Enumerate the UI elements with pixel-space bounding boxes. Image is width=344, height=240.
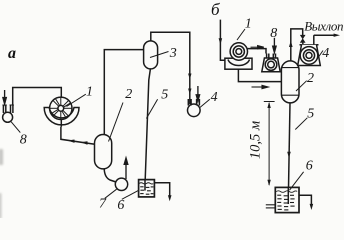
exhaust line with arrow (b) xyxy=(314,34,335,36)
tank 6 (b) outlet with arrow xyxy=(299,195,311,205)
leader and label 1 (b) xyxy=(237,17,252,40)
pipe 5 (a) long barometric line xyxy=(145,69,150,180)
svg-text:5: 5 xyxy=(307,107,314,122)
svg-text:1: 1 xyxy=(86,85,93,100)
inlet arrow into blower 8 with label 8 (b) xyxy=(273,38,276,53)
pipe 8 to pump 1 xyxy=(13,88,62,105)
label b (diagram b) xyxy=(211,0,220,19)
tank 6 (a) xyxy=(139,180,155,197)
leader and label 8 (a) xyxy=(11,122,27,148)
dimension 10.5 m xyxy=(264,102,275,186)
svg-text:2: 2 xyxy=(307,71,314,86)
svg-text:а: а xyxy=(8,45,16,62)
pipe pump1 to vessel 2 xyxy=(61,120,95,145)
pipe vessel2 bottom to pump 7 xyxy=(104,169,116,182)
tank 6 (a) outlet with arrow xyxy=(154,183,169,197)
leader and label 5 (a) xyxy=(146,88,168,119)
svg-text:10,5 м: 10,5 м xyxy=(247,121,263,159)
pipe vessel3 to pump 4 xyxy=(151,32,190,104)
svg-text:6: 6 xyxy=(306,159,313,174)
blower 8 (b) xyxy=(262,54,280,72)
leader and label 7 xyxy=(99,189,117,211)
pump 4 (a) xyxy=(188,99,201,117)
inlet arrow right tube of 4 xyxy=(196,86,199,101)
svg-text:1: 1 xyxy=(245,17,252,32)
flow arrows on pipe xyxy=(68,140,88,145)
barometric pipe 5 (b) with arrow xyxy=(288,103,290,200)
vacuum pump 1 (wheel) xyxy=(44,97,79,125)
leader and label 6 (a) xyxy=(117,190,138,213)
pipe vessel2 top to valve with up arrow (b) xyxy=(291,29,303,61)
leader and label 3 xyxy=(150,46,177,61)
label a (diagram a) xyxy=(8,45,16,62)
pump 7 outlet arrow up xyxy=(124,158,128,179)
svg-text:5: 5 xyxy=(161,88,168,103)
pump 1 casing crescent xyxy=(44,108,79,125)
svg-text:7: 7 xyxy=(99,197,107,212)
leader and label 4 (b) xyxy=(318,46,330,61)
flow chevrons on down pipe xyxy=(188,74,191,95)
leader and label 2 (a) xyxy=(109,87,133,142)
vessel 2 (a) xyxy=(95,135,112,169)
pump 7 xyxy=(115,178,127,190)
leader and label 6 (b) xyxy=(290,159,313,191)
vacuum pump 1 (b) xyxy=(225,43,252,69)
svg-text:3: 3 xyxy=(169,46,177,61)
dimension text 10,5 m xyxy=(247,121,263,159)
svg-text:Выхлоп: Выхлоп xyxy=(304,19,343,34)
valve (b) xyxy=(300,35,305,42)
discharge pipe pump1 to blower 8 (b) xyxy=(248,49,267,54)
svg-text:4: 4 xyxy=(211,90,218,105)
tank 6 (b) xyxy=(275,187,299,212)
leader and label 1 (a) xyxy=(67,85,94,107)
pipe vessel2 to vessel3 xyxy=(104,50,143,135)
suction line with arrow into pump 1 (b) xyxy=(220,20,225,61)
separator 8 xyxy=(2,105,14,122)
svg-text:б: б xyxy=(211,0,220,19)
svg-text:6: 6 xyxy=(117,198,124,213)
floating flow arrow xyxy=(252,85,269,88)
label Vykhlop (exhaust) xyxy=(304,19,343,34)
pump 4 (b) xyxy=(298,35,321,65)
inlet arrow into 8 xyxy=(3,90,6,104)
leader and label 2 (b) xyxy=(296,71,314,91)
svg-text:8: 8 xyxy=(20,133,27,148)
svg-text:2: 2 xyxy=(125,87,132,102)
svg-text:4: 4 xyxy=(322,46,329,61)
leader and label 5 (b) xyxy=(295,107,314,130)
leader and label 4 (a) xyxy=(200,90,218,108)
separator 3 xyxy=(144,41,158,69)
pipe pump1 base to vessel 2 (b) xyxy=(238,69,281,81)
vessel 2 (b) xyxy=(281,61,299,103)
tank 6 (b) makeup water inlet xyxy=(266,205,276,208)
svg-text:8: 8 xyxy=(270,26,277,41)
